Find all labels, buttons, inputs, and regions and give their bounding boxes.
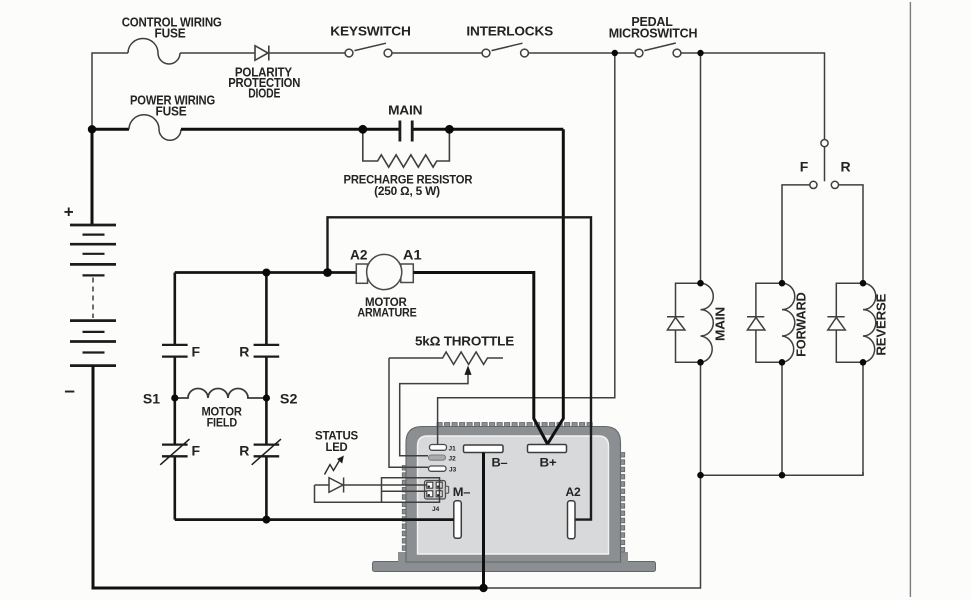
- junction node main coil bottom: [697, 359, 704, 366]
- diode D4 forward coil: [747, 283, 782, 362]
- switch S3 pedal microswitch: [635, 43, 681, 57]
- LED emission arrows: [325, 456, 344, 475]
- svg-text:J2: J2: [449, 455, 457, 462]
- svg-text:J3: J3: [449, 466, 457, 473]
- junction node keyswitch branch: [612, 50, 618, 56]
- svg-text:+: +: [64, 203, 74, 222]
- field branch left vertical S1: [174, 273, 177, 520]
- coil REVERSE contactor: [863, 283, 876, 475]
- contactor MAIN contact bars: [400, 121, 412, 142]
- inductor L1 motor field: [175, 389, 267, 399]
- controller U1 left fins: [402, 466, 407, 551]
- wire keyswitch to interlocks: [392, 52, 482, 54]
- svg-text:A1: A1: [403, 247, 422, 263]
- junction node reverse coil bottom: [860, 359, 867, 366]
- svg-text:S1: S1: [143, 391, 160, 407]
- contact R reverse upper: [254, 345, 280, 357]
- controller U1 inner panel: [418, 436, 609, 554]
- coil FORWARD contactor: [782, 283, 795, 475]
- wire LED anode loop to J4: [315, 485, 382, 502]
- svg-text:(250 Ω, 5 W): (250 Ω, 5 W): [374, 184, 440, 198]
- svg-text:INTERLOCKS: INTERLOCKS: [466, 24, 553, 39]
- svg-text:FUSE: FUSE: [155, 26, 186, 41]
- svg-text:R: R: [239, 443, 249, 459]
- contact R reverse lower with slash: [252, 439, 281, 465]
- battery B1 positive lead: [91, 129, 94, 225]
- controller U1 right fins: [620, 453, 625, 553]
- wire armature A1 down to B+: [413, 273, 547, 445]
- svg-text:ARMATURE: ARMATURE: [357, 306, 416, 320]
- junction node S1: [171, 394, 178, 401]
- svg-text:KEYSWITCH: KEYSWITCH: [330, 24, 410, 39]
- controller U1 top teeth: [437, 423, 592, 430]
- junction node lower bus main: [697, 472, 704, 479]
- diode D1 polarity protection: [255, 46, 269, 61]
- LED D2 status: [315, 478, 427, 493]
- svg-text:B+: B+: [540, 456, 557, 470]
- fuse F1 control wiring: [128, 39, 180, 64]
- svg-text:FORWARD: FORWARD: [794, 293, 809, 357]
- wire diode to keyswitch: [269, 52, 345, 54]
- svg-text:FUSE: FUSE: [156, 103, 187, 118]
- diode D3 main coil: [667, 283, 701, 362]
- connector J4 housing: [425, 481, 449, 500]
- wire F contact to forward coil: [782, 185, 810, 283]
- controller U1 body heatsink base: [373, 552, 656, 572]
- junction node S2: [263, 394, 270, 401]
- junction node main coil top: [697, 280, 704, 287]
- junction node field top right: [262, 269, 270, 277]
- field branch right vertical S2: [265, 273, 268, 520]
- svg-text:B–: B–: [492, 456, 509, 470]
- controller pad J2: [429, 455, 446, 460]
- controller pad J3: [429, 466, 447, 471]
- connector plug outline at J4: [382, 478, 440, 503]
- figure right border line: [909, 2, 911, 597]
- switch S2 interlocks: [482, 43, 528, 57]
- junction node B- return: [479, 584, 487, 592]
- wire B- drop to bottom bus: [482, 453, 485, 589]
- junction node main contactor right: [445, 125, 454, 134]
- junction node field bottom: [262, 516, 270, 524]
- fuse F2 power wiring: [129, 115, 181, 141]
- wire field bottom bus to M-: [175, 518, 454, 521]
- junction node forward coil top: [779, 280, 786, 287]
- battery B1 negative lead to bottom bus: [93, 366, 484, 588]
- wire fuse to main contactor: [181, 128, 399, 131]
- svg-text:REVERSE: REVERSE: [874, 293, 889, 355]
- contact F forward upper: [162, 345, 188, 357]
- wire pedal node to main coil: [700, 53, 702, 283]
- svg-text:FIELD: FIELD: [207, 416, 238, 430]
- throttle wiper arrow to J2: [400, 374, 468, 456]
- controller pad B-: [464, 445, 504, 453]
- wire power fuse row: [92, 128, 129, 131]
- svg-text:M–: M–: [453, 485, 471, 499]
- junction node battery+: [88, 125, 96, 133]
- diode D5 reverse coil: [827, 283, 863, 362]
- wire coil bottom bus: [701, 472, 864, 475]
- svg-text:5kΩ THROTTLE: 5kΩ THROTTLE: [415, 334, 515, 349]
- junction node lower bus forward: [779, 472, 786, 479]
- throttle low end to J3: [389, 358, 428, 467]
- junction node main contactor left: [358, 125, 367, 134]
- svg-text:MAIN: MAIN: [713, 307, 728, 341]
- svg-text:A2: A2: [566, 485, 582, 499]
- svg-text:R: R: [239, 344, 249, 360]
- battery B1 dashed middle link: [92, 278, 94, 319]
- svg-text:MICROSWITCH: MICROSWITCH: [609, 26, 698, 41]
- controller pad B+: [528, 445, 567, 453]
- svg-text:DIODE: DIODE: [248, 85, 280, 100]
- svg-text:J1: J1: [449, 446, 457, 453]
- svg-text:F: F: [192, 443, 201, 459]
- wire main contactor to B+ drop: [414, 128, 564, 131]
- svg-text:F: F: [192, 344, 201, 360]
- svg-text:MAIN: MAIN: [388, 103, 422, 118]
- wire fuse to polarity diode: [180, 52, 255, 54]
- potentiometer R2 throttle: [389, 352, 503, 364]
- junction node pedal branch: [697, 50, 703, 56]
- coil MAIN contactor: [701, 283, 714, 475]
- svg-text:A2: A2: [350, 247, 368, 263]
- svg-text:–: –: [64, 381, 75, 402]
- wire pedal switch to F/R selector: [681, 53, 825, 139]
- battery B1 plates: [70, 225, 116, 366]
- wire battery+ to control fuse: [92, 53, 128, 129]
- switch S4 forward/reverse pole: [810, 140, 839, 189]
- controller U1 outer shell: [406, 427, 621, 563]
- controller pad J1: [430, 445, 447, 451]
- wire main contactor output down to B+: [548, 129, 564, 444]
- wire keyswitch node to J1: [438, 53, 615, 444]
- resistor R1 precharge: [363, 132, 450, 167]
- svg-text:F: F: [800, 159, 809, 175]
- svg-text:LED: LED: [326, 440, 348, 454]
- svg-text:S2: S2: [280, 391, 298, 407]
- junction node forward coil bottom: [779, 359, 786, 366]
- switch S1 keyswitch: [345, 43, 392, 57]
- svg-text:R: R: [841, 159, 851, 175]
- wire interlocks to pedal microswitch: [529, 52, 636, 54]
- svg-text:J4: J4: [432, 506, 440, 513]
- motor armature M1: [356, 254, 413, 289]
- wire A2 node riser and run to controller A2: [328, 217, 592, 519]
- junction node armature A2: [323, 268, 332, 277]
- controller pad M-: [454, 501, 462, 539]
- contact F forward lower with slash: [160, 439, 189, 465]
- wire bottom return to main coil: [484, 475, 701, 588]
- junction node reverse coil top: [860, 280, 867, 287]
- wire J4 second pin: [382, 490, 427, 492]
- wire field top bus to armature A2 node: [175, 271, 356, 274]
- controller pad A2: [568, 501, 576, 539]
- wire R contact to reverse coil: [839, 185, 864, 283]
